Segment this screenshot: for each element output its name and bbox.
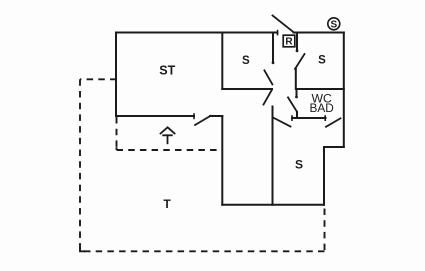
dashed porch bottom edge: [117, 149, 222, 151]
wire door leaf C: [274, 118, 291, 127]
wire WC door leaf D: [288, 97, 297, 111]
wire hall/lower-S divider wall: [272, 107, 274, 205]
wire bad door leaf F: [326, 118, 341, 127]
wire WC left stub lower: [296, 112, 298, 118]
svg-text:S: S: [242, 55, 250, 67]
svg-text:S: S: [318, 55, 326, 67]
svg-text:R: R: [285, 37, 293, 48]
wire left wall: [115, 33, 117, 117]
wire jamb tick left of top door: [277, 31, 279, 35]
entrance arrow symbol: [161, 127, 175, 143]
hinge dot hall door: [272, 61, 275, 64]
wire door leaf A: [264, 70, 272, 84]
wire jamb tick WC bottom left: [291, 116, 293, 120]
dashed terrace top edge: [80, 78, 117, 80]
dashed porch left edge: [116, 117, 118, 150]
wire S room bottom wall: [222, 88, 272, 90]
dashed corner piece porch: [116, 147, 118, 150]
wire door leaf B: [264, 90, 273, 105]
wire lower-left wall: [221, 116, 223, 205]
dashed terrace right edge: [324, 209, 326, 252]
wire door leaf top (R door): [273, 16, 295, 33]
svg-text:S: S: [295, 157, 303, 171]
wire south wall segment A: [116, 115, 194, 117]
hinge dot WC door: [295, 96, 298, 99]
wire S/WC wall: [297, 88, 344, 90]
svg-text:BAD: BAD: [309, 101, 333, 115]
wire step wall: [324, 146, 344, 148]
wire right wall upper: [343, 33, 345, 148]
wire S/S divider top stub: [296, 33, 298, 51]
wire door leaf E: [295, 54, 305, 69]
svg-text:T: T: [163, 197, 171, 211]
svg-text:ST: ST: [159, 63, 175, 77]
wire ST/S divider wall: [221, 33, 223, 90]
wire S/S divider lower: [295, 68, 297, 89]
wire entrance door leaf: [195, 116, 211, 125]
wire top wall right segment: [294, 32, 344, 34]
R box symbol: [283, 35, 295, 47]
wire top wall left segment: [116, 32, 278, 34]
dashed terrace bottom edge: [80, 250, 325, 252]
dashed terrace left edge: [79, 79, 81, 251]
wire bottom wall: [222, 204, 324, 206]
wire WC bottom wall: [292, 117, 326, 119]
S circle symbol: [328, 18, 340, 30]
dashed corner piece bottom-left: [80, 247, 85, 252]
svg-text:S: S: [330, 19, 337, 30]
wire jamb tick entrance: [193, 114, 195, 118]
wire jamb tick WC bottom right: [324, 116, 326, 120]
wire WC left stub upper: [296, 89, 298, 97]
wire right wall lower: [323, 147, 325, 205]
wire hall divider upper stub: [272, 33, 274, 63]
wire south wall segment B: [210, 115, 222, 117]
hinge dot S/S door: [296, 49, 299, 52]
